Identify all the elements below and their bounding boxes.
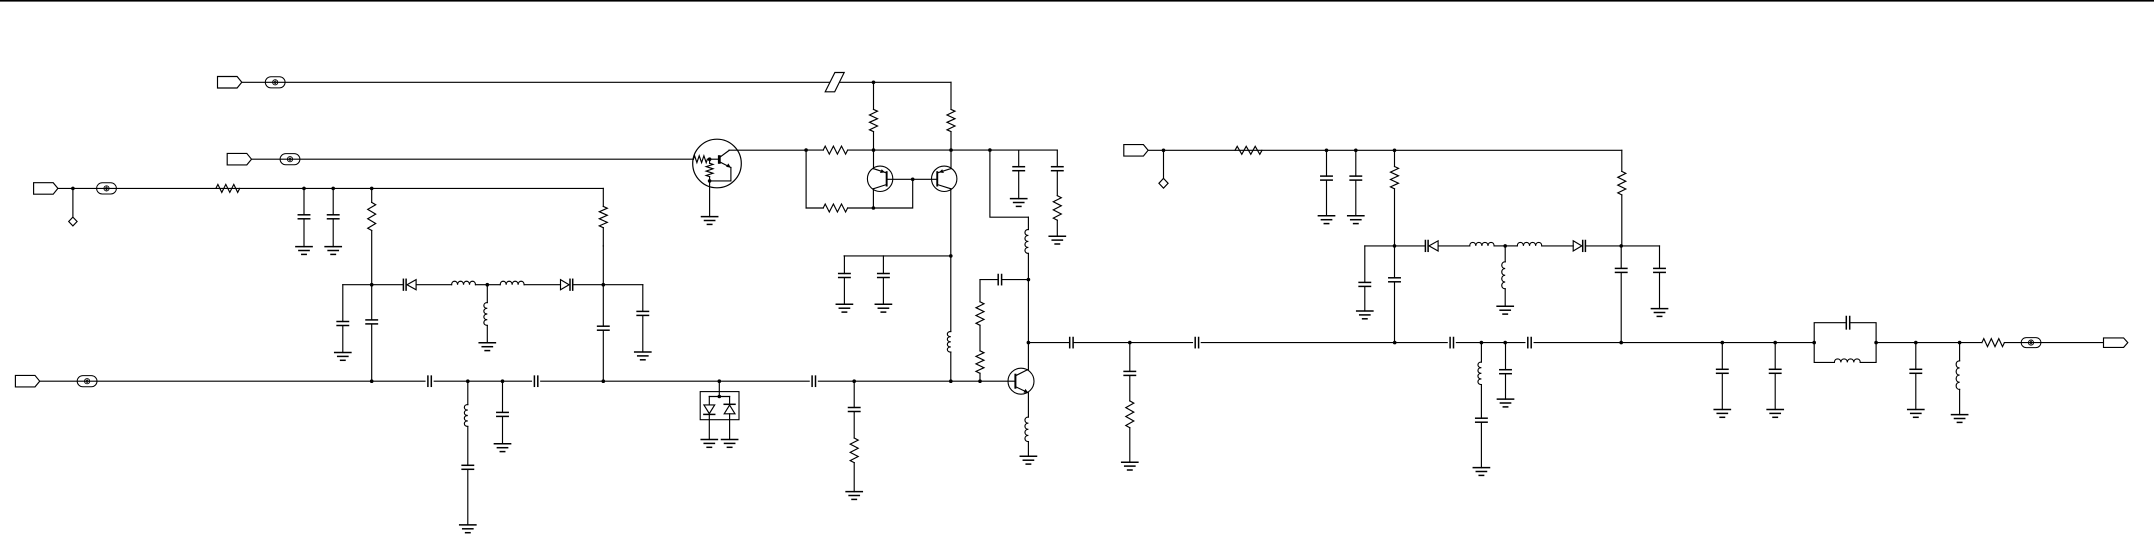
wire R_fb1 to A1 xyxy=(848,149,874,151)
node W1b xyxy=(370,379,374,383)
capacitor C_f2 xyxy=(1350,176,1361,180)
wire R_bias1 bottom lead xyxy=(873,132,875,151)
capacitor C_x4 xyxy=(849,408,860,412)
transistor Q2 emitter xyxy=(938,169,951,173)
capacitor C_l2 xyxy=(1389,278,1400,282)
ground C_m2 xyxy=(1767,410,1783,418)
wire C_m1 to ground xyxy=(1721,374,1723,410)
wire bypass rail xyxy=(844,255,951,257)
wire L_e3 to ground xyxy=(1027,442,1029,457)
cap C_l2 top lead xyxy=(1394,246,1396,278)
node X4 xyxy=(852,379,856,383)
capacitor C_l3 xyxy=(1616,268,1627,272)
cap C_l2 bottom lead xyxy=(1394,282,1396,342)
inductor L2 xyxy=(500,281,524,284)
wire diamond stub xyxy=(1163,150,1165,178)
wire bottom rail 1 xyxy=(40,380,372,382)
capacitor C_w1 xyxy=(366,320,377,324)
diode pair box outline xyxy=(700,392,739,420)
wire out segment 2 xyxy=(1074,342,1130,344)
wire D1 to L1 xyxy=(416,284,452,286)
wire D4 to J3 xyxy=(1585,245,1621,247)
ground C_m3 xyxy=(1908,410,1924,418)
wire A1 to A2 xyxy=(874,149,952,151)
capacitor C_o2 xyxy=(1195,338,1198,348)
capacitor C_r2 xyxy=(1052,167,1063,171)
wire L4 to D4 xyxy=(1542,245,1573,247)
wire out segment 5 xyxy=(1395,342,1448,344)
wire out segment 15 xyxy=(2004,342,2103,344)
capacitor C_f1 xyxy=(1321,176,1332,180)
capacitor C_byp1 xyxy=(839,274,850,278)
wire node E to C_fb xyxy=(1002,279,1028,281)
capacitor C_x1 xyxy=(462,465,473,469)
wire C_g1 to R_g1 xyxy=(1129,376,1131,401)
inductor L_e xyxy=(947,332,950,353)
capacitor C_m1 xyxy=(1717,369,1728,373)
wire bottom rail 7 xyxy=(603,380,719,382)
transistor Q1 circle xyxy=(867,166,892,191)
diode D1 with blocking cap xyxy=(403,279,416,290)
node U1 base xyxy=(708,157,712,161)
wire choke top lead xyxy=(1027,217,1029,229)
wire left limiter rail b xyxy=(372,284,404,286)
transistor U1 emitter xyxy=(721,162,731,167)
wire limiter rail xyxy=(1395,245,1426,247)
wire C_x4 to R_x4 xyxy=(853,412,855,438)
node M1 xyxy=(1721,341,1725,345)
wire J2 coil lead xyxy=(1504,246,1506,262)
capacitor C_o3 xyxy=(1450,338,1453,348)
wire R_f3 top lead xyxy=(1621,150,1623,171)
wire node C down to node B xyxy=(873,179,912,208)
wire J2 to L4 xyxy=(1505,245,1517,247)
cap C_f1 lead xyxy=(1326,150,1328,176)
wire D6 bottom lead xyxy=(729,414,731,440)
wire out segment 11 xyxy=(1775,342,1814,344)
node X3b xyxy=(718,395,722,399)
wire Q2 collector lead xyxy=(950,150,952,169)
transistor Q1 base bar xyxy=(886,171,888,186)
node H3 xyxy=(1393,149,1397,153)
transistor Q3 emitter xyxy=(1016,387,1028,393)
wire bottom rail 9 xyxy=(818,380,854,382)
node A2 xyxy=(949,148,953,152)
node X3 xyxy=(718,379,722,383)
capacitor C_l4 xyxy=(1654,268,1665,272)
inductor L_e3 xyxy=(1025,417,1028,441)
resistor U1 base-emitter xyxy=(706,163,713,176)
node F xyxy=(1128,341,1132,345)
wire D5 bottom lead xyxy=(708,414,710,439)
wire R_v1 top lead xyxy=(371,188,373,202)
wire L_out to ground xyxy=(1959,389,1961,414)
node M2 xyxy=(1773,341,1777,345)
cap C_in2 lead xyxy=(332,188,334,214)
node W3b xyxy=(602,379,606,383)
capacitor C_b3 xyxy=(812,376,815,386)
wire C_w0 to ground xyxy=(342,326,344,352)
wire C_k1 to ground xyxy=(1480,423,1482,468)
transistor U1 emitter arrow xyxy=(726,163,731,167)
diode D2 with blocking cap xyxy=(561,279,573,290)
node C xyxy=(911,178,915,182)
transistor U1 collector xyxy=(721,150,729,156)
resistor R_d1 xyxy=(976,302,984,326)
wire R_f3 bottom lead xyxy=(1621,195,1623,246)
wire A3 to corner xyxy=(990,149,1057,151)
wire base rail xyxy=(951,380,1015,382)
wire X3 stub xyxy=(718,381,720,396)
resistor R_in xyxy=(216,184,240,192)
wire W2 to L2 xyxy=(487,284,500,286)
ground R_g1 xyxy=(1122,462,1138,470)
wire bottom rail 2 xyxy=(372,380,425,382)
current probe I_Probe2 xyxy=(280,154,300,165)
wire C_in1 to ground xyxy=(303,219,305,246)
wire L1 to W2 xyxy=(476,284,488,286)
node VCC junction xyxy=(872,81,876,85)
wire bottom rail 6 xyxy=(541,380,604,382)
node OUT1 xyxy=(1027,341,1031,345)
resistor R_f2 xyxy=(1391,167,1399,189)
wire R_r2 to ground xyxy=(1056,220,1058,236)
capacitor C_w3 xyxy=(598,326,609,330)
wire Q1 base to node C xyxy=(888,178,913,180)
wire J3 to corner xyxy=(1621,245,1659,247)
wire R_x4 to ground xyxy=(853,463,855,492)
capacitor C_fb xyxy=(998,275,1001,285)
ground C_in2 xyxy=(325,247,341,255)
node W1 xyxy=(370,283,374,287)
wire Q1 emitter down xyxy=(872,189,874,208)
node W3 xyxy=(602,283,606,287)
ground C_m1 xyxy=(1714,410,1730,418)
ground C_in1 xyxy=(296,247,312,255)
inductor L3 xyxy=(1470,242,1494,245)
capacitor C_m3 xyxy=(1910,369,1921,373)
current probe I_in xyxy=(97,183,117,194)
wire out segment 1 xyxy=(1028,342,1069,344)
wire out segment 6 xyxy=(1456,342,1505,344)
wire choke bottom lead xyxy=(1027,253,1029,279)
wire out segment 14 xyxy=(1960,342,1982,344)
cap C_r1 bottom lead xyxy=(1018,171,1020,198)
wire R_v2 top lead xyxy=(602,188,604,206)
port P3 (bias input 2) xyxy=(1124,145,1148,157)
capacitor C_o1 xyxy=(1070,338,1073,348)
diode D6 (up) xyxy=(724,404,735,414)
port P_out (RF output) xyxy=(2104,338,2128,348)
wire Q2 emitter down xyxy=(950,189,952,256)
inductor L_k xyxy=(1478,362,1481,384)
inductor L_out xyxy=(1956,361,1959,390)
wire A0 to R_fb1 xyxy=(806,149,823,151)
inductor L_w xyxy=(484,303,487,326)
wire L_e to rail xyxy=(950,352,952,381)
cap C_in1 lead xyxy=(303,188,305,214)
wire bottom rail 4 xyxy=(468,380,503,382)
inductor L4 xyxy=(1517,242,1541,245)
wire L_m to ground xyxy=(1504,289,1506,307)
node G xyxy=(1162,149,1166,153)
wire LC bottom left xyxy=(1814,343,1834,363)
ground C_x1 xyxy=(460,525,476,533)
diamond net label left xyxy=(69,217,77,226)
wire K1 coil lead xyxy=(1480,343,1482,363)
wire U1 resistor bottom lead xyxy=(709,177,711,181)
node W2 xyxy=(486,283,490,287)
wire Q3 collector up xyxy=(1027,280,1029,370)
node A3 xyxy=(988,148,992,152)
capacitor C_r1 xyxy=(1013,167,1024,171)
ground C_f1 xyxy=(1318,216,1334,224)
ground C_w0 xyxy=(335,353,351,361)
node X2 xyxy=(501,379,505,383)
cap C_byp2 bottom lead xyxy=(882,278,884,304)
wire LC bottom right xyxy=(1860,343,1876,363)
capacitor C_g1 xyxy=(1124,371,1135,375)
wire C_x1 to ground xyxy=(467,470,469,525)
wire L3 to J2 xyxy=(1494,245,1505,247)
ground C_r1 xyxy=(1011,199,1027,207)
wire K2 cap lead xyxy=(1505,343,1507,370)
wire C_x2 to ground xyxy=(502,417,504,444)
transistor Q2 emitter arrow xyxy=(939,169,944,173)
capacitor C_byp2 xyxy=(878,274,889,278)
node J1 xyxy=(1393,244,1397,248)
node K2 xyxy=(1503,341,1507,345)
resistor R_r2 xyxy=(1053,196,1061,221)
capacitor C_w0 xyxy=(337,322,348,326)
wire C_in2 to ground xyxy=(332,219,334,246)
inductor L_trap xyxy=(1834,359,1860,362)
transistor Q3 circle xyxy=(1008,368,1034,394)
wire corner down xyxy=(1056,150,1058,167)
wire divider top xyxy=(979,280,981,302)
diamond net label right xyxy=(1159,178,1168,188)
capacitor C_trap xyxy=(1846,317,1849,329)
diode D4 with blocking cap xyxy=(1573,241,1585,252)
wire C_fb to divider xyxy=(980,279,998,281)
resistor R_out xyxy=(1982,339,2005,347)
inductor L_m xyxy=(1502,262,1505,289)
node U1 emitter xyxy=(708,179,712,183)
wire out segment 4 xyxy=(1201,342,1394,344)
wire out segment 10 xyxy=(1722,342,1775,344)
node H2 xyxy=(1354,149,1358,153)
wire R_bias1 top lead xyxy=(873,82,875,109)
wire R_v2 bottom lead xyxy=(602,228,604,246)
capacitor C_b1 xyxy=(428,376,431,386)
cap C_m2 lead xyxy=(1774,343,1776,370)
node X1 xyxy=(466,379,470,383)
cap C_m3 lead xyxy=(1915,343,1917,370)
capacitor C_b2 xyxy=(534,376,537,386)
wire C_l1 to ground xyxy=(1364,287,1366,311)
wire U1 collector out xyxy=(729,149,806,151)
wire out segment 8 xyxy=(1534,342,1621,344)
cap C_l3 top lead xyxy=(1620,246,1622,269)
ground C_byp1 xyxy=(836,304,852,312)
ground C_w4 xyxy=(635,352,651,360)
transistor Q3 base bar xyxy=(1014,374,1016,389)
node N1 xyxy=(1812,341,1816,345)
ground L_m xyxy=(1497,306,1513,314)
node M3 xyxy=(1914,341,1918,345)
resistor R_f1 xyxy=(1235,146,1262,154)
node V3 xyxy=(370,187,374,191)
node A1 xyxy=(872,148,876,152)
wire R_v1 bottom lead xyxy=(371,231,373,285)
wire bottom rail 10 xyxy=(854,380,951,382)
wire X1 coil lead xyxy=(467,381,469,404)
wire limiter left down xyxy=(1364,246,1366,283)
cap C_byp1 top lead xyxy=(843,256,845,274)
wire divider bottom xyxy=(979,373,981,381)
current probe I_low xyxy=(77,376,97,387)
port P2 (RF input 1) xyxy=(227,153,251,165)
node D xyxy=(949,254,953,258)
transistor U1 package circle xyxy=(693,139,742,188)
wire C_m3 to ground xyxy=(1915,374,1917,410)
capacitor C_in2 xyxy=(328,215,339,219)
resistor R_fb2 xyxy=(823,204,847,212)
wire R_bias2 bottom lead xyxy=(950,132,952,151)
capacitor C_l1 xyxy=(1359,282,1370,286)
cap C_r1 top lead xyxy=(1018,150,1020,167)
wire A0 down xyxy=(805,150,807,208)
ground R_r2 xyxy=(1049,236,1065,244)
cap C_m1 lead xyxy=(1721,343,1723,370)
wire D2 to W3 xyxy=(573,284,604,286)
wire L_w to ground xyxy=(486,325,488,342)
wire left limiter rail a xyxy=(343,284,372,286)
wire C_l4 to ground xyxy=(1659,273,1661,309)
wire C_r2 to R_r2 xyxy=(1056,171,1058,195)
resistor R_v2 xyxy=(599,206,607,227)
wire R_g1 to ground xyxy=(1129,428,1131,463)
ground C_k2 xyxy=(1497,399,1513,407)
wire W0 down xyxy=(342,285,344,322)
wire VCC feed xyxy=(242,81,874,83)
wire X2 cap lead xyxy=(502,381,504,412)
current probe I_out xyxy=(2021,338,2041,348)
cap C_g1 lead xyxy=(1129,343,1131,372)
node M4 xyxy=(1958,341,1962,345)
inductor L_x1 xyxy=(464,405,467,427)
wire node C to Q2 base xyxy=(913,178,937,180)
node V1 xyxy=(302,187,306,191)
cap C_l3 bottom lead xyxy=(1620,273,1622,343)
current probe I_Probe1 xyxy=(265,77,285,88)
wire C_m2 to ground xyxy=(1774,374,1776,410)
wire out segment 12 xyxy=(1876,342,1916,344)
ground C_k1 xyxy=(1473,468,1489,476)
resistor R_fb1 xyxy=(823,146,847,154)
port P4 (RF input) xyxy=(34,183,58,195)
wire U1 emitter feedback xyxy=(710,167,731,181)
node H1 xyxy=(1325,149,1329,153)
node J3b xyxy=(1619,341,1623,345)
wire C_f1 to ground xyxy=(1326,181,1328,216)
wire L_x1 to cap xyxy=(467,426,469,465)
capacitor C_o4 xyxy=(1528,338,1531,348)
wire D5 top lead xyxy=(708,397,710,405)
inductor L_c xyxy=(1025,230,1028,254)
wire Q3 emitter down xyxy=(1027,393,1029,417)
wire R_v2 bottom lead2 xyxy=(602,246,604,285)
wire C_k2 to ground xyxy=(1505,374,1507,399)
wire W3 to corner xyxy=(603,284,643,286)
wire out segment 9 xyxy=(1621,342,1722,344)
resistor R_d2 xyxy=(976,351,984,374)
wire U1 ground lead xyxy=(709,181,711,217)
wire out segment 3 xyxy=(1130,342,1193,344)
wire LC top right xyxy=(1851,323,1876,343)
wire bottom rail 8 xyxy=(719,380,809,382)
wire right feed xyxy=(1148,149,1622,151)
wire W2 coil lead xyxy=(486,285,488,303)
breaker symbol (slash) xyxy=(825,73,844,92)
transistor Q1 emitter xyxy=(873,169,885,173)
transistor Q1 emitter arrow xyxy=(880,169,885,173)
cap C_byp1 bottom lead xyxy=(843,278,845,304)
cap C_w1 bottom lead xyxy=(371,325,373,382)
wire stage1 input xyxy=(251,158,693,160)
top border rule xyxy=(0,0,2154,2)
wire R_fb2 to node B xyxy=(848,207,874,209)
cap C_x4 lead xyxy=(853,381,855,407)
wire R_f2 bottom lead xyxy=(1394,189,1396,246)
wire D6 top lead xyxy=(729,397,731,405)
ground Q3 emitter xyxy=(1020,456,1036,464)
wire input row3 xyxy=(58,187,603,189)
ground C_l4 xyxy=(1651,309,1667,317)
wire LC top left xyxy=(1814,323,1845,343)
cap C_byp2 top lead xyxy=(882,256,884,274)
wire L2 to D2 xyxy=(524,284,560,286)
wire out segment 7 xyxy=(1505,342,1525,344)
wire A3 to choke xyxy=(990,150,1029,217)
ground U1 xyxy=(702,217,718,225)
node P4a xyxy=(71,187,75,191)
wire limiter right down xyxy=(1659,246,1661,269)
transistor Q2 collector diag xyxy=(938,185,951,189)
cap C_f2 lead xyxy=(1355,150,1357,176)
capacitor C_k2 xyxy=(1500,370,1511,374)
ground R_x4 xyxy=(846,492,862,500)
wire Q1 collector lead xyxy=(873,150,875,169)
ground C_byp2 xyxy=(875,304,891,312)
wire Q2 emitter to L1 xyxy=(950,256,952,332)
wire out segment 13 xyxy=(1916,342,1960,344)
wire L_k to cap xyxy=(1480,385,1482,419)
ground L_out xyxy=(1952,415,1968,423)
wire A0 to R_fb2 xyxy=(806,207,823,209)
wire C_w4 to ground xyxy=(642,316,644,352)
wire bottom rail 5 xyxy=(503,380,532,382)
resistor R_bias1 xyxy=(870,109,878,131)
node E xyxy=(1027,278,1031,282)
node rail-Le xyxy=(949,379,953,383)
resistor U1 base input xyxy=(693,156,707,163)
cap C_w3 top lead xyxy=(602,285,604,327)
node V2 xyxy=(331,187,335,191)
node J2 xyxy=(1503,244,1507,248)
wire M4 coil lead xyxy=(1959,343,1961,361)
resistor R_x4 xyxy=(850,438,858,463)
